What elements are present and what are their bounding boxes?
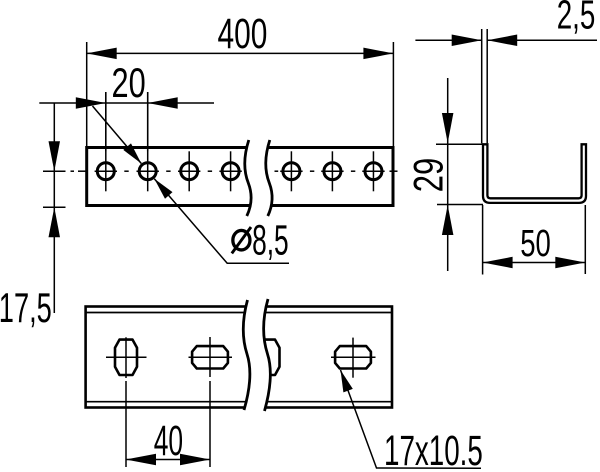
svg-text:17,5: 17,5 [0,284,52,331]
svg-text:400: 400 [218,10,268,58]
svg-text:8,5: 8,5 [252,217,289,264]
svg-text:2,5: 2,5 [557,0,596,37]
svg-text:20: 20 [112,59,146,106]
svg-text:40: 40 [154,417,183,465]
svg-text:50: 50 [520,222,551,265]
svg-text:29: 29 [405,158,452,193]
svg-text:17x10.5: 17x10.5 [384,428,483,472]
